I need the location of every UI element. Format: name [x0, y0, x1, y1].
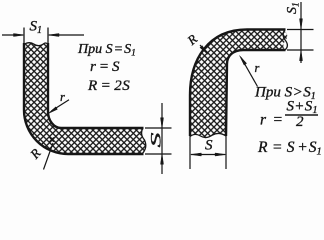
S1 dimension arrow left	[14, 34, 25, 37]
svg-text:R=S+S1: R=S+S1	[257, 139, 322, 158]
S extension line left (right fig)	[189, 136, 191, 169]
S dimension arrow down	[161, 118, 164, 129]
S1 extension line bottom (right fig)	[287, 49, 314, 51]
S1 extension line left	[23, 28, 25, 45]
r leader line (right fig)	[241, 58, 258, 87]
S extension line right (right fig)	[225, 136, 227, 169]
S dimension line vertical	[161, 103, 163, 174]
S1 dimension arrow down (right fig)	[300, 19, 303, 30]
S1 dimension arrow right	[49, 34, 60, 37]
torn right edge (break line)	[142, 128, 146, 154]
svg-text:r: r	[255, 61, 260, 75]
svg-text:S: S	[205, 138, 213, 154]
svg-text:r: r	[60, 90, 65, 104]
S dimension arrow left (right fig)	[191, 153, 202, 156]
S dimension line (right fig)	[191, 154, 225, 156]
r leader arrow	[48, 107, 58, 114]
inner outline (right edge + inner radius r arc + top edge)	[48, 43, 144, 128]
R leader arrow (right fig)	[200, 46, 208, 55]
S1 dimension arrow up (right fig)	[300, 50, 303, 61]
R leader line (left fig)	[44, 143, 54, 170]
inner outline (bottom edge + inner r curve + right edge)	[226, 50, 286, 136]
svg-text:2: 2	[296, 114, 304, 130]
r leader arrow (right fig)	[240, 56, 247, 66]
S1 extension line right	[47, 28, 49, 45]
r leader line (left fig)	[52, 100, 70, 111]
torn top edge (break line)	[24, 43, 48, 46]
S dimension arrow up	[161, 154, 164, 165]
S extension line bottom	[145, 153, 172, 155]
S dimension arrow right (right fig)	[215, 153, 226, 156]
hatched material (right bend)	[190, 30, 287, 138]
outer outline (top edge + outer R curve + left edge)	[190, 30, 286, 137]
fraction bar	[285, 114, 318, 116]
svg-text:r=S: r=S	[90, 59, 120, 75]
hatched material (left bend)	[24, 43, 146, 154]
R leader line (right fig)	[200, 45, 207, 53]
svg-text:S: S	[149, 132, 165, 148]
outer outline (left edge + outer radius R arc + bottom edge)	[24, 43, 144, 154]
svg-text:R=2S: R=2S	[87, 78, 130, 94]
S1 dimension line vertical (right fig)	[300, 2, 302, 63]
torn right edge (break line)	[283, 30, 287, 51]
S1 extension line top (right fig)	[287, 29, 314, 31]
S1 dimension line left tail	[2, 34, 23, 36]
torn bottom edge (break line)	[190, 133, 226, 137]
arc centre mark x	[49, 137, 53, 141]
S1 dimension line right tail	[49, 34, 84, 36]
S extension line top	[145, 127, 172, 129]
svg-text:При S=S1: При S=S1	[77, 42, 136, 59]
